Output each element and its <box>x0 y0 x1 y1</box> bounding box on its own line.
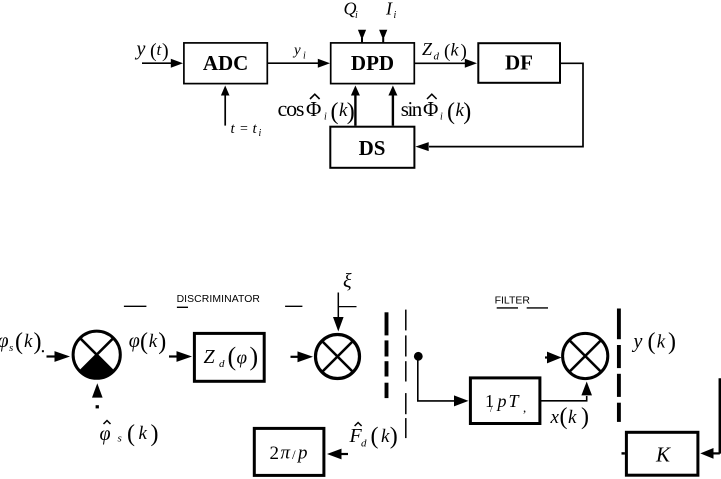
dashed separator (thin) <box>405 310 407 439</box>
block ADC <box>184 43 267 84</box>
svg-text:d: d <box>219 358 225 370</box>
wire 1/pT to mixer M3 bottom <box>540 382 592 401</box>
svg-text:): ) <box>34 329 42 355</box>
svg-text:(: ( <box>15 329 23 355</box>
svg-text:k: k <box>451 40 460 60</box>
svg-text:): ) <box>158 329 166 355</box>
svg-text:ADC: ADC <box>203 51 249 75</box>
svg-text:k: k <box>24 331 33 352</box>
label phi_s(k) <box>0 329 44 355</box>
svg-text:y: y <box>135 38 146 60</box>
svg-text:(: ( <box>127 421 135 447</box>
svg-text:p: p <box>296 443 308 464</box>
wire into mixer M2 <box>291 351 314 362</box>
svg-text:): ) <box>463 99 471 125</box>
svg-text:s: s <box>118 433 122 445</box>
svg-text:): ) <box>151 421 159 447</box>
label y(k) <box>632 329 677 355</box>
svg-text:k: k <box>381 426 390 447</box>
label sin PHIhat_i(k) <box>401 94 472 125</box>
dashed separator (thick, filter output) <box>617 309 621 422</box>
wire node to block 1/pT <box>418 356 469 406</box>
block 1/pT <box>470 378 540 424</box>
mixer M2 <box>316 335 360 379</box>
svg-text:): ) <box>347 99 355 125</box>
block DF <box>478 43 560 83</box>
label y(t) <box>135 38 169 62</box>
svg-text:i: i <box>355 10 358 21</box>
block K <box>626 432 698 475</box>
svg-text:φ: φ <box>0 330 9 352</box>
svg-text:φ: φ <box>129 330 140 352</box>
wire ADC to DPD <box>268 59 331 68</box>
block 2pi/p <box>254 428 324 475</box>
svg-text:DPD: DPD <box>351 51 394 75</box>
block Zd <box>194 333 264 381</box>
svg-text:K: K <box>655 443 671 467</box>
svg-text:d: d <box>434 51 440 63</box>
mixer M3 <box>563 333 608 378</box>
svg-text:i: i <box>259 128 262 139</box>
stub at block K left <box>622 452 625 454</box>
arrow Q_i into DPD top <box>358 30 366 43</box>
dashed section line (filter) <box>497 307 548 309</box>
svg-text:): ) <box>461 41 467 62</box>
svg-text:(: ( <box>648 329 656 355</box>
dashed section line (discriminator) <box>124 306 303 307</box>
svg-text:π: π <box>281 443 291 464</box>
label Q_i <box>344 0 359 21</box>
block DS <box>330 127 414 168</box>
svg-text:k: k <box>657 332 666 353</box>
svg-text:): ) <box>668 329 676 355</box>
label Fhat_d(k) <box>349 423 398 450</box>
arrow I_i into DPD top <box>379 30 387 43</box>
label cos PHIhat_i(k) <box>278 94 355 125</box>
arrow into block 2pi/p <box>327 449 348 460</box>
svg-text:(: ( <box>140 329 148 355</box>
svg-text:i: i <box>440 112 443 123</box>
svg-text:DF: DF <box>505 51 533 75</box>
svg-text:cos: cos <box>278 96 304 121</box>
arrow into mixer M1 bottom <box>92 383 103 408</box>
wire sin into DPD bottom <box>388 86 397 126</box>
svg-text:Φ: Φ <box>306 97 321 121</box>
wire sampling clock into ADC bottom <box>221 86 230 126</box>
label phi(k) <box>129 329 167 355</box>
svg-text:): ) <box>250 342 259 371</box>
svg-text:2: 2 <box>270 443 280 464</box>
wire into mixer M3 <box>545 352 562 364</box>
svg-text:ξ: ξ <box>343 270 352 292</box>
label x(k) <box>550 404 590 430</box>
wire y(t) to ADC <box>142 59 183 68</box>
wire feedback into block K <box>700 378 720 459</box>
svg-text:,: , <box>523 400 526 415</box>
svg-text:sin: sin <box>401 97 423 121</box>
svg-text:/: / <box>292 447 296 462</box>
svg-text:φ: φ <box>237 348 248 369</box>
label Z_d(k) <box>422 39 467 63</box>
label y_i <box>292 43 306 62</box>
svg-text:(: ( <box>331 99 339 125</box>
svg-text:(: ( <box>371 424 379 450</box>
node junction dot <box>414 352 423 361</box>
svg-text:y: y <box>632 331 643 353</box>
wire DPD to DF <box>415 59 478 68</box>
dashed separator (thick, discriminator output) <box>385 312 389 398</box>
svg-text:(: ( <box>444 41 450 62</box>
svg-text:d: d <box>361 438 367 450</box>
svg-text:p: p <box>496 391 507 411</box>
svg-text:φ: φ <box>100 423 111 445</box>
block DPD <box>331 43 415 84</box>
label I_i <box>385 0 397 21</box>
svg-text:Φ: Φ <box>423 97 438 121</box>
svg-text:i: i <box>394 10 397 21</box>
label t = t_i <box>231 121 262 139</box>
svg-text:k: k <box>149 331 158 352</box>
svg-text:=: = <box>240 122 248 137</box>
svg-text:): ) <box>581 404 589 430</box>
label phihat_s(k) <box>100 421 159 448</box>
wire cos into DPD bottom <box>351 86 360 126</box>
svg-text:DISCRIMINATOR: DISCRIMINATOR <box>177 294 261 305</box>
svg-text:k: k <box>139 423 148 444</box>
wire DF feedback to DS <box>415 63 583 151</box>
svg-text:s: s <box>9 342 13 354</box>
wire into mixer M1 <box>47 351 71 362</box>
svg-text:k: k <box>568 407 577 428</box>
svg-text:FILTER: FILTER <box>495 295 531 307</box>
svg-text:y: y <box>292 43 301 59</box>
mixer M1 (summing junction) <box>73 331 120 379</box>
svg-text:(: ( <box>447 99 455 125</box>
wire xi into mixer M2 top <box>333 293 357 332</box>
svg-text:x: x <box>550 407 560 428</box>
svg-text:): ) <box>390 424 398 450</box>
svg-text:(: ( <box>228 342 237 371</box>
svg-text:i: i <box>303 51 306 62</box>
svg-text:i: i <box>324 112 327 123</box>
svg-text:I: I <box>385 0 393 19</box>
svg-text:Z: Z <box>422 39 433 59</box>
mixer M1 filled lower sector <box>79 355 114 380</box>
svg-text:(: ( <box>560 404 568 430</box>
svg-text:DS: DS <box>359 136 386 160</box>
wire into block Zd <box>169 351 192 362</box>
svg-text:): ) <box>162 40 169 62</box>
svg-text:Z: Z <box>204 346 216 368</box>
